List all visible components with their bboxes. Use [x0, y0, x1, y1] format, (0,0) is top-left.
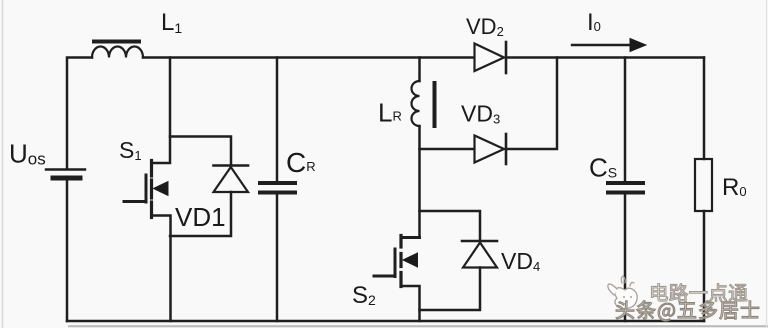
- capacitor CS plates: [608, 183, 643, 193]
- diode VD1 triangle: [214, 167, 249, 192]
- transistor S2 gate bar: [394, 249, 397, 277]
- diode VD3 branch left wire: [420, 148, 475, 151]
- watermark logo cat: [608, 276, 637, 309]
- capacitor CR top lead: [276, 58, 279, 182]
- inductor L1 core bar: [94, 40, 139, 44]
- wire bottom: [67, 320, 704, 323]
- diode VD3 triangle: [475, 136, 505, 163]
- diode VD3 branch right wire: [506, 58, 557, 150]
- watermark text line 2: [616, 301, 759, 321]
- inductor LR bottom lead: [418, 126, 421, 238]
- frame left edge: [2, 0, 4, 328]
- wire right vertical top: [703, 58, 706, 160]
- transistor S1 gate lead: [124, 200, 146, 203]
- diode VD4 branch top wire: [420, 211, 481, 240]
- transistor S1 body arrow: [154, 182, 169, 196]
- inductor LR coil: [412, 81, 420, 126]
- diode VD3 cathode bar: [505, 134, 508, 164]
- source Uos battery short plate: [53, 176, 80, 181]
- capacitor CR plates: [260, 183, 295, 193]
- wire top right: [506, 56, 704, 59]
- transistor S1 channel bars: [150, 161, 153, 218]
- capacitor CR bottom lead: [276, 195, 279, 322]
- frame bottom edge: [68, 325, 768, 327]
- transistor S2 channel bars: [399, 236, 402, 287]
- transistor S2 drain lead: [402, 236, 420, 239]
- frame right edge: [766, 0, 768, 328]
- diode VD4 branch bottom wire: [420, 268, 481, 311]
- transistor S2 body arrow: [403, 253, 418, 267]
- diode VD2 triangle: [475, 44, 505, 72]
- wire left lower: [66, 178, 69, 321]
- watermark text line 1: [652, 284, 748, 302]
- capacitor CS bottom lead: [624, 195, 627, 322]
- wire right vertical bottom: [703, 211, 706, 321]
- diode VD4 triangle: [463, 243, 497, 268]
- wire top left segment: [67, 58, 92, 170]
- resistor R0 box: [695, 159, 712, 211]
- source Uos battery long plate: [46, 168, 85, 170]
- diode VD1 branch top wire: [170, 137, 231, 166]
- inductor LR top lead: [418, 58, 421, 82]
- diode VD1 cathode bar: [214, 164, 249, 167]
- transistor S1 gate bar: [145, 175, 148, 202]
- wire S1 drain vertical: [153, 58, 171, 164]
- svg-text:VD1: VD1: [175, 202, 226, 232]
- current arrow I0: [572, 39, 646, 52]
- transistor S2 source lead: [402, 286, 420, 321]
- transistor S2 gate lead: [374, 275, 395, 278]
- diode VD4 cathode bar: [462, 240, 497, 243]
- inductor LR core bar: [433, 83, 437, 126]
- wire top middle: [143, 56, 474, 59]
- inductor L1: [92, 47, 143, 58]
- capacitor CS top lead: [624, 58, 627, 182]
- diode VD1 branch bottom wire: [170, 192, 231, 236]
- diode VD2 cathode bar: [505, 42, 508, 73]
- wire S1 source vertical: [153, 216, 171, 322]
